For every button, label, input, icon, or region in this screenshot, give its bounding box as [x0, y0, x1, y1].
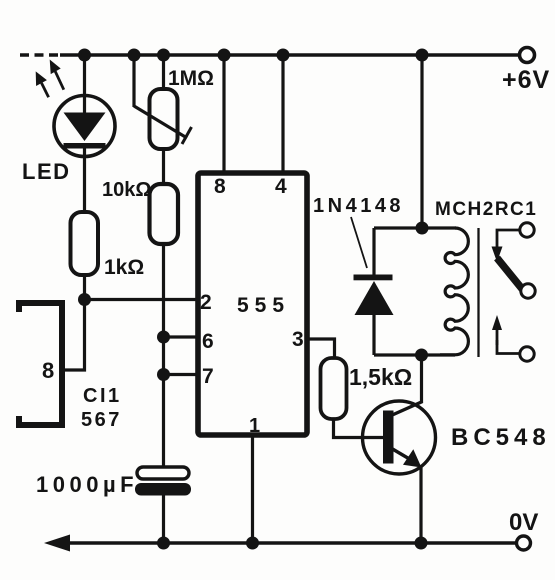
wire pin 6 stub: [164, 335, 199, 338]
contact terminal top: [520, 223, 534, 237]
wire pin 3 to 1.5k: [307, 339, 335, 358]
LED D1: [22, 96, 115, 185]
wire emitter to 0V rail: [419, 466, 422, 543]
arm arrowhead: [492, 247, 503, 263]
wire pot to 10k: [162, 149, 165, 184]
diode D2 1N4148: [354, 228, 394, 355]
wire LED branch from rail: [83, 55, 86, 212]
IC CI1 567 (partial box): [19, 303, 122, 431]
resistor R2 10k: [102, 179, 178, 244]
svg-text:8: 8: [42, 358, 54, 383]
wire 0V bottom rail: [58, 541, 517, 544]
svg-text:LED: LED: [22, 159, 71, 184]
node pin 6 junction: [157, 331, 170, 344]
node pin 7 junction: [157, 368, 170, 381]
svg-text:1000µF: 1000µF: [36, 472, 138, 497]
svg-text:10kΩ: 10kΩ: [102, 179, 151, 201]
node pin2 / LED / CI1 junction: [78, 293, 91, 306]
relay switch contacts: [492, 223, 536, 361]
wire pot top from rail: [162, 55, 165, 89]
svg-text:1kΩ: 1kΩ: [104, 256, 144, 279]
svg-text:567: 567: [81, 409, 122, 431]
node rail dots top: [78, 49, 290, 62]
wire bottom contact: [497, 340, 520, 354]
svg-text:1N4148: 1N4148: [313, 195, 404, 217]
contact terminal middle: [521, 284, 535, 298]
potentiometer P1 1M body: [150, 67, 215, 149]
wire relay feed from rail: [420, 55, 423, 228]
wire top contact to arm: [497, 230, 520, 248]
terminal 0V: [509, 509, 538, 550]
svg-text:6: 6: [202, 330, 214, 353]
wire pin 8 from rail: [222, 55, 225, 172]
contact terminal bottom: [520, 347, 534, 361]
svg-text:8: 8: [214, 175, 226, 198]
wire capacitor to rail: [162, 495, 165, 543]
relay core line: [477, 228, 479, 357]
wire pin 7 stub: [164, 373, 199, 376]
node rail dots bottom: [157, 537, 428, 550]
wire node down to CI1 pin 8 stub: [62, 300, 85, 371]
wire collector from coil bottom node: [420, 355, 423, 403]
movable arm (thick): [497, 258, 523, 290]
svg-text:1MΩ: 1MΩ: [168, 67, 214, 90]
transistor Q1 BC548: [363, 401, 551, 474]
svg-text:3: 3: [292, 328, 304, 351]
terminal +6V: [502, 48, 550, 95]
svg-text:555: 555: [237, 294, 290, 317]
node diode/coil top: [416, 222, 429, 235]
relay K1 coil MCH2RC1: [435, 199, 537, 355]
potentiometer P1 wiper (from rail): [134, 55, 192, 144]
light arrows from LED: [36, 60, 64, 98]
wire diode top horizontal: [374, 226, 456, 229]
0V rail arrowhead: [44, 535, 70, 552]
wire +6V top rail: [60, 53, 519, 56]
capacitor C1 1000uF: [36, 467, 191, 497]
svg-text:CI1: CI1: [83, 385, 122, 407]
svg-text:1: 1: [249, 415, 260, 437]
svg-text:BC548: BC548: [451, 424, 551, 451]
resistor R3 1k: [71, 212, 145, 279]
wire pin 2 horizontal: [85, 298, 199, 301]
node relay top junction: [416, 49, 429, 62]
wire 1k to pin2 node: [83, 275, 86, 300]
wire pin 4 from rail: [281, 55, 284, 172]
resistor R4 1,5k: [321, 358, 413, 419]
wire pin 1 to 0V rail: [251, 435, 254, 543]
wire +6V rail dashed continuation (top-left): [20, 53, 62, 56]
IC U1 555: [198, 173, 307, 437]
svg-text:+6V: +6V: [502, 66, 550, 94]
NO contact arrow: [492, 315, 502, 330]
svg-text:0V: 0V: [509, 509, 538, 536]
wire 1,5k to transistor base: [334, 419, 386, 438]
wire diode bottom horizontal: [374, 353, 455, 356]
svg-text:7: 7: [202, 365, 214, 388]
wire label pointer to diode: [351, 217, 367, 268]
wire 10k down to capacitor (crosses pin2 wire, joins pins 6,7): [162, 244, 165, 467]
node diode/coil bottom: [415, 349, 428, 362]
svg-text:MCH2RC1: MCH2RC1: [435, 199, 537, 220]
svg-text:4: 4: [275, 175, 287, 198]
svg-text:1,5kΩ: 1,5kΩ: [349, 364, 412, 390]
svg-text:2: 2: [200, 291, 212, 314]
